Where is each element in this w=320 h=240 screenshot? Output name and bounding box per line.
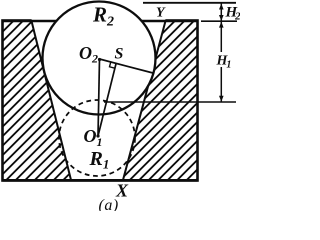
- svg-text:Y: Y: [156, 6, 166, 21]
- svg-text:S: S: [115, 46, 124, 63]
- svg-text:H2: H2: [225, 5, 241, 23]
- svg-text:H1: H1: [216, 54, 232, 71]
- svg-text:(a): (a): [99, 197, 119, 211]
